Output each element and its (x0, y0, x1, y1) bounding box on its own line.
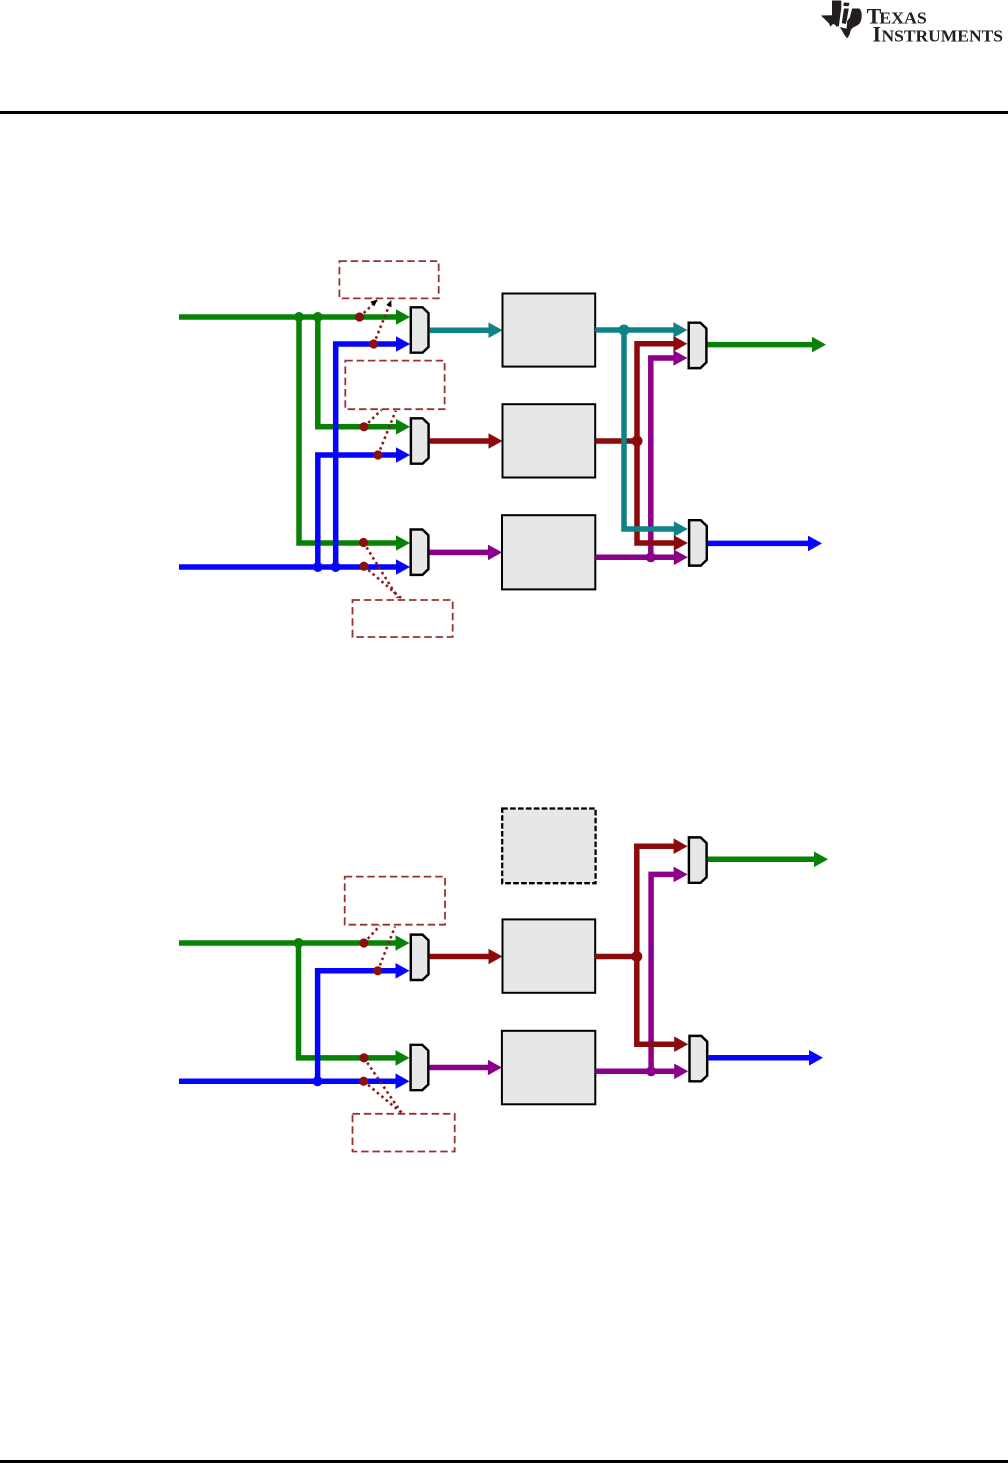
mux U1 (top input mux) (411, 307, 429, 352)
wire: blue input net (fig2) (179, 971, 399, 1081)
wire: purple mux U7 output to block B5 (429, 1065, 489, 1071)
select box R4 (dashed) (345, 877, 445, 925)
black arrowheads on U1 select lines (370, 300, 391, 308)
select dotted lines mux U1 (360, 301, 392, 345)
mux U5 (bottom output mux) (689, 520, 707, 565)
block B1 (503, 294, 596, 367)
wire: dark-red mux U6 output to block B4 (429, 954, 490, 960)
mux U6 (upper input mux fig2) (411, 935, 429, 980)
wire: green output arrow (top) (708, 342, 815, 348)
select dots (dark red) top diagram (355, 312, 383, 570)
node: blue junction dot (fig2) (313, 963, 410, 1089)
select box R2 (dashed) (345, 361, 444, 410)
select dotted lines mux U7 (364, 1058, 402, 1113)
svg-text:NSTRUMENTS: NSTRUMENTS (882, 26, 1004, 45)
wire: green input net (fig2) (179, 943, 399, 1058)
select box R1 (dashed) (339, 261, 438, 298)
mux U2 (middle input mux) (411, 418, 429, 463)
TI logo glyph (821, 1, 862, 39)
block B6 (dashed border, unused) (502, 809, 595, 884)
wire: teal mux U1 output to block B1 (430, 327, 491, 333)
header rule (0, 111, 1008, 114)
wire: green input net (GPIO in) (179, 317, 399, 543)
footer rule (0, 1460, 1008, 1463)
svg-text:EXAS: EXAS (879, 8, 927, 27)
select dotted lines mux U2 (364, 410, 396, 455)
block B3 (502, 515, 595, 589)
node: green junction dots (294, 309, 410, 551)
mux U7 (lower input mux fig2) (411, 1045, 429, 1090)
wire: blue output arrow (fig2) (708, 1055, 810, 1061)
wire: blue input net (179, 344, 399, 567)
mux U9 (lower output mux fig2) (690, 1036, 708, 1081)
wire: dark-red mux U2 output to block B2 (430, 438, 491, 444)
block B2 (503, 404, 596, 477)
mux U3 (bottom input mux) (411, 530, 429, 575)
select dots (dark red) fig2 (359, 938, 382, 1085)
select box R3 (dashed) (353, 600, 453, 637)
select box R5 (dashed) (353, 1114, 455, 1152)
wire: dark-red block B2 output net (595, 344, 676, 543)
select dotted lines mux U3 (364, 543, 402, 599)
wire: purple mux U3 output to block B3 (430, 550, 490, 556)
mux U4 (top output mux) (689, 323, 707, 368)
wire: purple block B3 output net (595, 358, 676, 557)
mux U8 (upper output mux fig2) (689, 837, 707, 882)
node: blue junction dots (313, 336, 410, 575)
select dotted lines mux U6 (364, 926, 395, 971)
block B4 (503, 919, 596, 992)
wire: teal block B1 output net (595, 330, 676, 529)
arrowheads green inputs (396, 309, 410, 325)
block B5 (502, 1031, 595, 1105)
arrowheads blue inputs (396, 559, 410, 575)
wire: dark-red block B4 output net (595, 846, 676, 1044)
TI logo text TEXAS (867, 3, 1003, 46)
wire: purple block B5 output net (595, 874, 676, 1071)
svg-text:I: I (873, 21, 882, 46)
wire: blue output arrow (bottom) (708, 541, 810, 547)
node: green junction dot (fig2) (294, 935, 410, 1065)
wire: green output arrow (fig2) (708, 857, 815, 863)
